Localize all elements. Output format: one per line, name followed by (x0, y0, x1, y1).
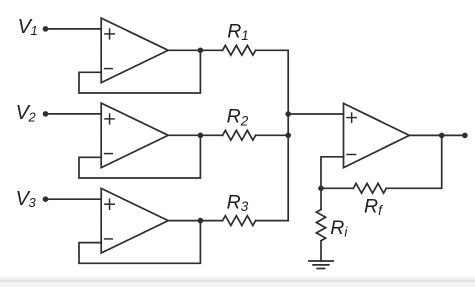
resistor Rf (353, 183, 386, 193)
wire V2 to U2 noninverting input (46, 113, 102, 115)
wire U1 feedback: output to inverting input (79, 50, 200, 93)
op-amp U3 (voltage follower) (101, 188, 168, 253)
resistor R3 (223, 216, 256, 226)
op-amp U2 (voltage follower) (101, 103, 168, 168)
wire V3 to U3 noninverting input (46, 198, 102, 200)
wire U4 output (409, 134, 465, 136)
node output terminal (462, 133, 468, 139)
junction U1 output / feedback tap (198, 48, 204, 54)
wire R2 to summing bus (256, 134, 289, 136)
op-amp U1 (voltage follower) (101, 18, 168, 83)
wire summing bus (node S) (287, 50, 289, 220)
wire U1 output to resistor R1 (168, 49, 222, 51)
ground (309, 261, 333, 269)
wire feedback node to Rf (321, 187, 353, 189)
junction U3 output / feedback tap (198, 218, 204, 224)
wire U3 output to resistor R3 (168, 220, 222, 222)
wire V1 to U1 noninverting input (46, 28, 102, 30)
wire bus to U4 noninverting input (288, 113, 343, 115)
wire U3 feedback: output to inverting input (79, 221, 200, 264)
node V1 input terminal (43, 26, 49, 32)
node V2 input terminal (43, 111, 49, 117)
wire Ri to ground (320, 241, 322, 261)
wire R1 to summing bus (256, 49, 289, 51)
junction feedback node (Rf / Ri / inverting input) (318, 186, 324, 192)
junction U2 output / feedback tap (198, 133, 204, 139)
wire U4 inverting input to feedback node (321, 157, 344, 189)
resistor Ri (316, 210, 325, 241)
op-amp U4 (output amplifier) (344, 103, 410, 167)
wire R3 to summing bus (256, 220, 289, 222)
resistor R1 (223, 45, 256, 55)
resistor R2 (223, 130, 256, 140)
junction U4 output / feedback tap (439, 133, 445, 139)
wire U2 feedback: output to inverting input (79, 135, 200, 178)
wire U2 output to resistor R2 (168, 134, 222, 136)
junction bus / U4 noninverting tap (285, 111, 291, 117)
junction bus / R2 (285, 133, 291, 139)
wire Ri upper lead (320, 188, 322, 209)
wire Rf to U4 output (386, 135, 441, 188)
node V3 input terminal (43, 196, 49, 202)
